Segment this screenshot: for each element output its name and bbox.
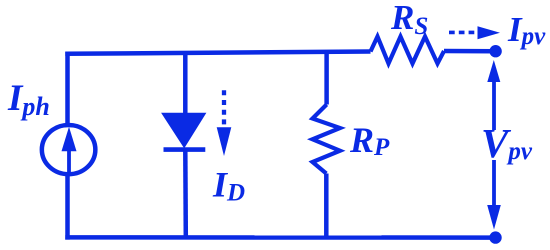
current ID arrowhead	[217, 127, 232, 156]
wire bottom horizontal	[65, 235, 495, 240]
node A top-right dot	[489, 45, 501, 57]
current source arrowhead	[62, 127, 77, 152]
svg-text:Ipv: Ipv	[507, 10, 546, 50]
diode D1 cathode bar	[164, 147, 206, 152]
resistor RP zigzag	[313, 105, 341, 174]
svg-text:ID: ID	[212, 165, 245, 207]
diode D1 triangle	[162, 113, 206, 147]
wire top horizontal	[65, 52, 370, 54]
node B bottom-right dot	[489, 231, 501, 243]
wire RP branch lower	[324, 174, 329, 238]
voltage Vpv arrow shaft upper	[492, 80, 496, 130]
svg-text:Iph: Iph	[7, 78, 50, 121]
current source U1 circle	[42, 125, 96, 174]
current Ipv dashed arrow	[449, 31, 477, 35]
voltage Vpv up arrowhead	[487, 60, 500, 82]
wire diode branch lower	[183, 150, 188, 238]
current source arrow shaft	[67, 146, 71, 175]
svg-text:RP: RP	[349, 120, 390, 161]
wire top-right segment	[444, 49, 496, 54]
wire diode branch upper	[183, 52, 188, 114]
wire left branch upper	[65, 52, 70, 126]
svg-text:Vpv: Vpv	[481, 120, 533, 166]
wire RP branch upper	[324, 52, 329, 105]
current Ipv arrowhead	[478, 26, 501, 39]
voltage Vpv arrow shaft lower	[492, 160, 496, 207]
wire left branch lower	[65, 174, 70, 239]
svg-text:RS: RS	[390, 0, 428, 40]
voltage Vpv down arrowhead	[487, 205, 501, 230]
resistor RS zigzag	[371, 37, 445, 64]
current ID dashed arrow	[222, 90, 226, 126]
